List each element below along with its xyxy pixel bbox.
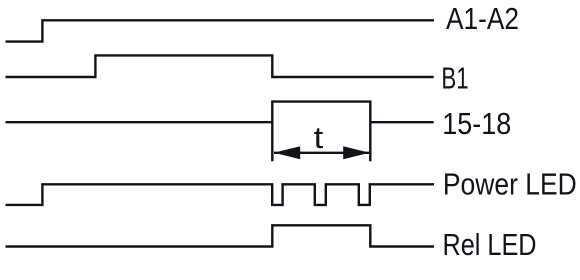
svg-text:15-18: 15-18 [442,107,511,141]
svg-text:B1: B1 [441,61,468,95]
svg-text:Power LED: Power LED [443,168,577,202]
svg-text:t: t [314,120,324,155]
svg-text:A1-A2: A1-A2 [446,2,519,37]
svg-text:Rel LED: Rel LED [443,226,537,261]
